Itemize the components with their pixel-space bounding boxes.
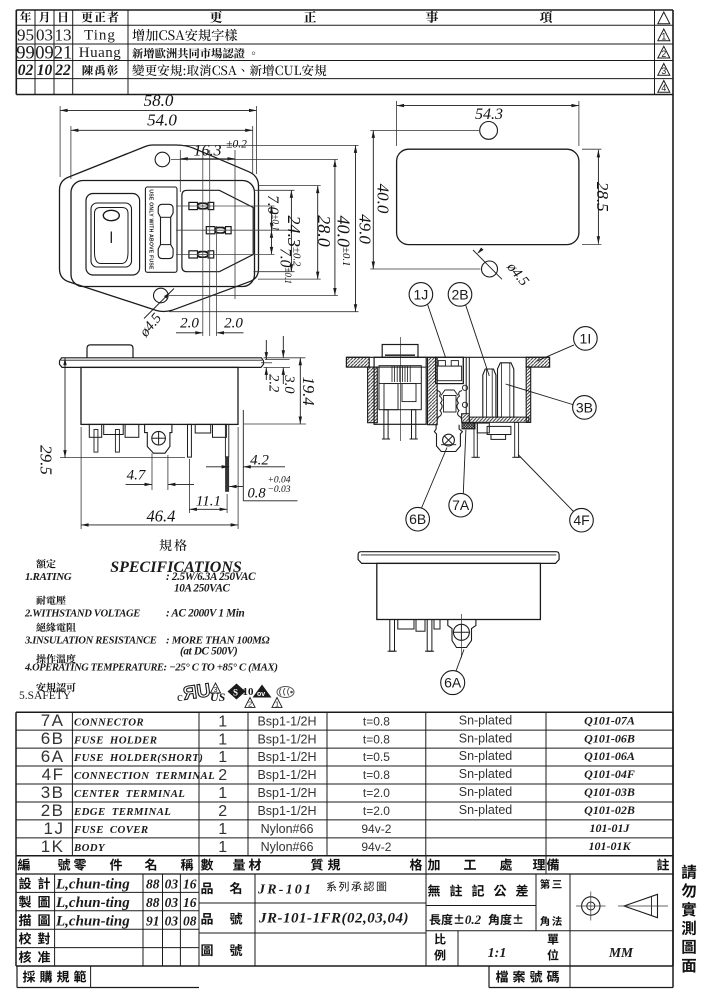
svg-text:MM: MM bbox=[608, 945, 634, 960]
view4 clip rivets bbox=[462, 385, 467, 390]
dim 0.8 with tolerance bbox=[229, 486, 243, 488]
svg-text:21: 21 bbox=[54, 43, 73, 63]
svg-text:4.7: 4.7 bbox=[127, 468, 147, 484]
svg-text:4.OPERATING TEMPERATURE: 4.OPERATING TEMPERATURE bbox=[24, 663, 164, 674]
revision table frame bbox=[16, 10, 673, 95]
view4 elbow bracket hatched bbox=[462, 414, 470, 423]
svg-text:Sn-plated: Sn-plated bbox=[459, 803, 513, 817]
view3 0.8 terminal pin with dark section bbox=[225, 424, 228, 456]
svg-text:4F: 4F bbox=[573, 512, 589, 528]
svg-text:2B: 2B bbox=[451, 286, 468, 302]
view1 body rounded rect bbox=[71, 181, 255, 287]
view4 switch body outline bbox=[374, 357, 426, 424]
svg-text:1: 1 bbox=[218, 713, 228, 730]
sheet right border bbox=[672, 95, 674, 967]
svg-text:Q101-04F: Q101-04F bbox=[584, 767, 635, 781]
title block frame bbox=[16, 856, 673, 966]
svg-text:88: 88 bbox=[146, 895, 160, 910]
svg-text:28.0: 28.0 bbox=[314, 215, 334, 247]
callout 6A bbox=[441, 671, 465, 695]
spec operating temperature bbox=[36, 654, 76, 663]
tolerance box bbox=[428, 884, 440, 896]
view4 cavity floor hatched bbox=[469, 417, 529, 422]
view1 inlet pin middle bbox=[206, 227, 215, 234]
spec withstand voltage bbox=[36, 595, 65, 604]
svg-text:1: 1 bbox=[275, 699, 279, 708]
svg-text:−0.03: −0.03 bbox=[268, 485, 291, 495]
svg-text:3B: 3B bbox=[41, 783, 65, 802]
callout 7A bbox=[449, 493, 473, 517]
svg-text:CENTER TERMINAL: CENTER TERMINAL bbox=[74, 788, 185, 800]
dim 7.0 bottom bbox=[271, 230, 273, 254]
view2 bottom hole bbox=[482, 261, 498, 277]
svg-text:(at DC 500V): (at DC 500V) bbox=[180, 646, 238, 658]
svg-text:JR-101: JR-101 bbox=[257, 883, 313, 898]
dim 49.0 view1 bbox=[355, 145, 357, 311]
svg-text:0.8: 0.8 bbox=[248, 485, 267, 501]
svg-text:USE ONLY WITH ABOVE FUSE: USE ONLY WITH ABOVE FUSE bbox=[147, 189, 153, 270]
dim dia4.5 view2 leader bbox=[473, 250, 502, 279]
view4 centerline switch bbox=[400, 337, 402, 441]
dim 19.4 bbox=[299, 358, 301, 424]
svg-text:EDGE TERMINAL: EDGE TERMINAL bbox=[73, 806, 171, 818]
svg-text:16: 16 bbox=[183, 877, 197, 892]
svg-text:95: 95 bbox=[17, 25, 34, 44]
view5 fuse holder short 6A bbox=[448, 620, 476, 648]
view5 second pin bbox=[427, 620, 432, 652]
svg-text:4: 4 bbox=[661, 83, 666, 93]
svg-text:2.WITHSTAND VOLTAGE: 2.WITHSTAND VOLTAGE bbox=[24, 609, 140, 620]
svg-text:Q101-02B: Q101-02B bbox=[584, 803, 635, 817]
view1 rocker switch bbox=[91, 203, 132, 267]
safety logo oval mark bbox=[277, 687, 294, 698]
svg-text:5.SAFETY: 5.SAFETY bbox=[19, 690, 72, 702]
svg-text:54.3: 54.3 bbox=[475, 106, 503, 123]
view3 middle pin bbox=[188, 424, 192, 457]
svg-text:Bsp1-1/2H: Bsp1-1/2H bbox=[257, 750, 316, 764]
view1 rocker O marking bbox=[103, 210, 119, 220]
svg-text:Sn-plated: Sn-plated bbox=[459, 785, 513, 799]
file number box bbox=[488, 966, 490, 988]
svg-text:t=2.0: t=2.0 bbox=[363, 786, 390, 800]
svg-text:Nylon#66: Nylon#66 bbox=[261, 822, 314, 836]
svg-text:t=0.8: t=0.8 bbox=[363, 714, 390, 728]
view1 inlet pin bottom bbox=[189, 251, 198, 258]
svg-text:0.2: 0.2 bbox=[465, 912, 482, 927]
svg-text:2.2: 2.2 bbox=[266, 374, 282, 392]
svg-text:46.4: 46.4 bbox=[146, 507, 175, 526]
svg-text:1: 1 bbox=[218, 731, 228, 748]
svg-text:Sn-plated: Sn-plated bbox=[459, 713, 513, 727]
svg-text:Bsp1-1/2H: Bsp1-1/2H bbox=[257, 786, 316, 800]
spec heading bbox=[159, 539, 186, 551]
dim 29.5 bbox=[64, 358, 66, 458]
svg-text:BODY: BODY bbox=[73, 842, 106, 854]
svg-text:6A: 6A bbox=[41, 747, 65, 766]
callout 1I bbox=[574, 327, 598, 351]
title left rows bbox=[19, 877, 31, 889]
view4 center terminal pin 3B bbox=[498, 363, 514, 418]
spec rating bbox=[36, 559, 55, 568]
svg-text:19.4: 19.4 bbox=[299, 377, 318, 406]
callout 1J bbox=[409, 283, 433, 307]
view1 pin centerlines horizontal bbox=[176, 205, 275, 207]
callout 2B bbox=[448, 283, 472, 307]
dim dia 4.5 view1 leader bbox=[144, 289, 174, 319]
svg-text:3.0: 3.0 bbox=[281, 374, 297, 394]
svg-text:22: 22 bbox=[54, 62, 71, 79]
dim 24.3 bbox=[290, 190, 292, 271]
svg-text:101-01J: 101-01J bbox=[590, 821, 631, 835]
svg-text:JR-101-1FR(02,03,04): JR-101-1FR(02,03,04) bbox=[258, 911, 409, 927]
svg-text:11.1: 11.1 bbox=[196, 494, 221, 510]
svg-text:28.5: 28.5 bbox=[593, 182, 612, 212]
view4 right wall hatched bbox=[526, 367, 531, 423]
svg-text:29.5: 29.5 bbox=[37, 445, 56, 475]
svg-text:13: 13 bbox=[55, 25, 72, 44]
view4 connector 7A dark block bbox=[462, 423, 475, 429]
dim 7.0 top bbox=[271, 206, 273, 230]
svg-text:ov: ov bbox=[257, 691, 265, 698]
svg-text:99: 99 bbox=[16, 43, 35, 63]
svg-text:1J: 1J bbox=[44, 819, 65, 838]
svg-text:1: 1 bbox=[661, 32, 666, 42]
svg-text:CONNECTION TERMINAL: CONNECTION TERMINAL bbox=[74, 770, 215, 782]
view1 fuse label plate bbox=[145, 187, 177, 272]
svg-text:02: 02 bbox=[18, 62, 34, 79]
view5 left pin bbox=[390, 620, 395, 652]
svg-text:Sn-plated: Sn-plated bbox=[459, 749, 513, 763]
svg-text:2: 2 bbox=[661, 49, 666, 59]
svg-text:6B: 6B bbox=[409, 511, 426, 527]
view3 switch pins bbox=[94, 430, 98, 453]
svg-text:: 2.5W/6.3A 250VAC: : 2.5W/6.3A 250VAC bbox=[166, 571, 256, 583]
svg-text:FUSE HOLDER(SHORT): FUSE HOLDER(SHORT) bbox=[73, 752, 203, 764]
dim 28.0 bbox=[317, 186, 319, 280]
svg-text:88: 88 bbox=[146, 877, 160, 892]
view3 fuse cover bump bbox=[87, 345, 133, 358]
view3 right terminal block bbox=[195, 424, 211, 433]
view4 fuse clip spring bbox=[437, 391, 442, 420]
svg-text:4F: 4F bbox=[42, 765, 65, 784]
svg-text:1: 1 bbox=[218, 821, 228, 838]
svg-text:2: 2 bbox=[218, 803, 228, 820]
svg-text:03: 03 bbox=[165, 877, 179, 892]
view4 switch bump bbox=[382, 345, 418, 358]
third angle projection symbol circle bbox=[582, 897, 600, 915]
scale row bbox=[435, 933, 446, 944]
svg-text:03: 03 bbox=[165, 895, 179, 910]
svg-text:1I: 1I bbox=[580, 330, 592, 346]
view1 inlet pin top bbox=[189, 202, 198, 209]
svg-text:+0.04: +0.04 bbox=[268, 476, 291, 486]
svg-text:±0.2: ±0.2 bbox=[226, 139, 247, 151]
svg-text:Sn-plated: Sn-plated bbox=[459, 731, 513, 745]
view5 centerline bbox=[460, 614, 462, 658]
svg-text:3: 3 bbox=[661, 66, 666, 76]
view5 body rect bbox=[377, 563, 541, 619]
svg-text:Q101-03B: Q101-03B bbox=[584, 785, 635, 799]
revision delta symbols bbox=[658, 12, 670, 24]
view4 lower pin left bbox=[474, 423, 477, 457]
svg-text:3B: 3B bbox=[576, 399, 593, 415]
svg-text:Ting: Ting bbox=[84, 28, 116, 44]
svg-text:10: 10 bbox=[243, 686, 255, 698]
view1 rocker I marking bbox=[110, 232, 112, 244]
svg-text:Sn-plated: Sn-plated bbox=[459, 767, 513, 781]
svg-text:2: 2 bbox=[248, 699, 252, 708]
svg-text:Nylon#66: Nylon#66 bbox=[261, 840, 314, 854]
svg-text:3.INSULATION RESISTANCE: 3.INSULATION RESISTANCE bbox=[24, 636, 157, 647]
svg-text:L,chun-ting: L,chun-ting bbox=[55, 895, 130, 911]
safety logo triangle mark bbox=[253, 685, 272, 698]
title middle rows bbox=[201, 882, 212, 894]
safety logo diamond S10 bbox=[228, 684, 246, 700]
svg-text:US: US bbox=[210, 690, 226, 704]
revision table header row bbox=[20, 11, 31, 22]
svg-text:1K: 1K bbox=[41, 837, 65, 856]
svg-text:40.0: 40.0 bbox=[374, 184, 393, 214]
dim 28.5 bbox=[597, 150, 599, 244]
svg-text:L,chun-ting: L,chun-ting bbox=[55, 877, 130, 893]
view1 top mounting hole bbox=[155, 152, 170, 167]
view3 switch terminals left bbox=[89, 424, 101, 437]
view1 IEC C14 inlet opening bbox=[182, 190, 253, 271]
view4 fuse cover 1J section bbox=[436, 357, 464, 383]
svg-text:09: 09 bbox=[35, 43, 54, 63]
view4 lower terminals center bbox=[477, 423, 489, 433]
callout 6B bbox=[406, 507, 430, 531]
svg-text:2.0: 2.0 bbox=[180, 316, 199, 332]
svg-text:t=2.0: t=2.0 bbox=[363, 804, 390, 818]
svg-text:t=0.8: t=0.8 bbox=[363, 732, 390, 746]
view1 bottom mounting hole bbox=[154, 288, 169, 303]
spec safety bbox=[36, 682, 75, 691]
view1 flange outline bbox=[60, 145, 259, 312]
spec insulation resistance bbox=[36, 622, 76, 631]
svg-text:Bsp1-1/2H: Bsp1-1/2H bbox=[257, 804, 316, 818]
svg-text:16: 16 bbox=[183, 895, 197, 910]
view1 fuse cover capsule bbox=[158, 204, 173, 258]
svg-text:2.0: 2.0 bbox=[224, 316, 243, 332]
svg-text:L,chun-ting: L,chun-ting bbox=[55, 913, 130, 929]
view4 edge terminal pin 2B bbox=[483, 369, 496, 418]
svg-text:2B: 2B bbox=[41, 801, 65, 820]
svg-text:S: S bbox=[233, 688, 238, 698]
svg-text:101-01K: 101-01K bbox=[589, 839, 632, 853]
svg-text:t=0.5: t=0.5 bbox=[363, 750, 390, 764]
svg-text:10A 250VAC: 10A 250VAC bbox=[174, 583, 231, 595]
svg-text:Q101-06B: Q101-06B bbox=[584, 731, 635, 745]
svg-text:1: 1 bbox=[218, 749, 228, 766]
view4 switch pins bbox=[384, 410, 388, 439]
view2 top hole bbox=[480, 121, 498, 139]
view4 flange right ear hatched bbox=[526, 357, 549, 367]
svg-text:Q101-07A: Q101-07A bbox=[584, 713, 635, 727]
svg-text:1J: 1J bbox=[414, 286, 429, 302]
svg-text:Huang: Huang bbox=[79, 45, 122, 61]
view4 lower pin right 4F bbox=[515, 422, 519, 457]
svg-text:ЯU: ЯU bbox=[182, 680, 212, 705]
svg-text:03: 03 bbox=[36, 25, 53, 44]
svg-text:FUSE COVER: FUSE COVER bbox=[73, 824, 149, 836]
svg-text:2: 2 bbox=[218, 767, 228, 784]
svg-text:4.2: 4.2 bbox=[250, 453, 269, 469]
view3 center screw terminal 6B style bbox=[145, 424, 172, 453]
svg-text:3: 3 bbox=[213, 685, 217, 694]
view4 left body wall hatched bbox=[368, 367, 378, 423]
third angle label bbox=[540, 879, 550, 889]
dim 40.0 view2 bbox=[372, 130, 374, 269]
svg-text:1: 1 bbox=[218, 785, 228, 802]
svg-text:Bsp1-1/2H: Bsp1-1/2H bbox=[257, 732, 316, 746]
third angle projection symbol cone bbox=[624, 894, 658, 917]
view1 switch opening bbox=[86, 194, 140, 276]
purchase spec box bbox=[16, 966, 18, 988]
view4 center wall hatched bbox=[428, 357, 438, 424]
view4 fuse holder screw 6B bbox=[434, 425, 462, 452]
svg-text:6B: 6B bbox=[41, 729, 65, 748]
dim 40.0 view1 bbox=[334, 160, 336, 296]
svg-text:1.RATING: 1.RATING bbox=[25, 571, 72, 583]
view4 flange left ear hatched bbox=[346, 357, 369, 367]
view3 body rect bbox=[81, 367, 238, 424]
view3 ext line right of body bbox=[242, 410, 244, 501]
view5 terminal combs bbox=[398, 620, 414, 630]
view4 flange top line bbox=[346, 356, 549, 358]
svg-text:54.0: 54.0 bbox=[147, 111, 177, 130]
title header row labels bbox=[18, 858, 30, 870]
view4 switch inner details bbox=[379, 366, 421, 410]
svg-text:91: 91 bbox=[146, 913, 160, 928]
svg-text:CONNECTOR: CONNECTOR bbox=[74, 716, 144, 728]
parts list table bbox=[16, 712, 673, 856]
svg-text:: −25° C TO +85° C (MAX): : −25° C TO +85° C (MAX) bbox=[164, 662, 278, 674]
svg-text:Bsp1-1/2H: Bsp1-1/2H bbox=[257, 714, 316, 728]
svg-text:08: 08 bbox=[183, 913, 197, 928]
view2 cutout rounded rect bbox=[397, 149, 579, 244]
svg-text:94v-2: 94v-2 bbox=[361, 840, 391, 854]
svg-text:03: 03 bbox=[165, 913, 179, 928]
svg-text:t=0.8: t=0.8 bbox=[363, 768, 390, 782]
view3 flange bar bbox=[60, 358, 264, 368]
svg-text:10: 10 bbox=[37, 62, 53, 79]
view4 cavity thin wall bbox=[462, 357, 464, 384]
view1 pin centerlines vertical bbox=[202, 152, 204, 336]
svg-text:Q101-06A: Q101-06A bbox=[584, 749, 635, 763]
svg-text:1:1: 1:1 bbox=[488, 946, 507, 961]
do not measure drawing note vertical bbox=[682, 865, 696, 880]
svg-text:7A: 7A bbox=[41, 711, 65, 730]
svg-text:94v-2: 94v-2 bbox=[361, 822, 391, 836]
svg-text:Bsp1-1/2H: Bsp1-1/2H bbox=[257, 768, 316, 782]
svg-text:6A: 6A bbox=[444, 675, 462, 691]
svg-text:49.0: 49.0 bbox=[356, 214, 375, 244]
svg-text:: AC 2000V 1 Min: : AC 2000V 1 Min bbox=[166, 608, 244, 620]
callout 3B bbox=[573, 396, 597, 420]
dim 3.0 and 2.2 flange bbox=[282, 336, 284, 358]
svg-text:1: 1 bbox=[218, 839, 228, 856]
svg-text:FUSE HOLDER: FUSE HOLDER bbox=[73, 734, 157, 746]
view5 flange bbox=[358, 552, 559, 564]
callout 4F bbox=[570, 508, 594, 532]
svg-text:58.0: 58.0 bbox=[144, 91, 174, 110]
svg-text:7A: 7A bbox=[452, 497, 470, 513]
